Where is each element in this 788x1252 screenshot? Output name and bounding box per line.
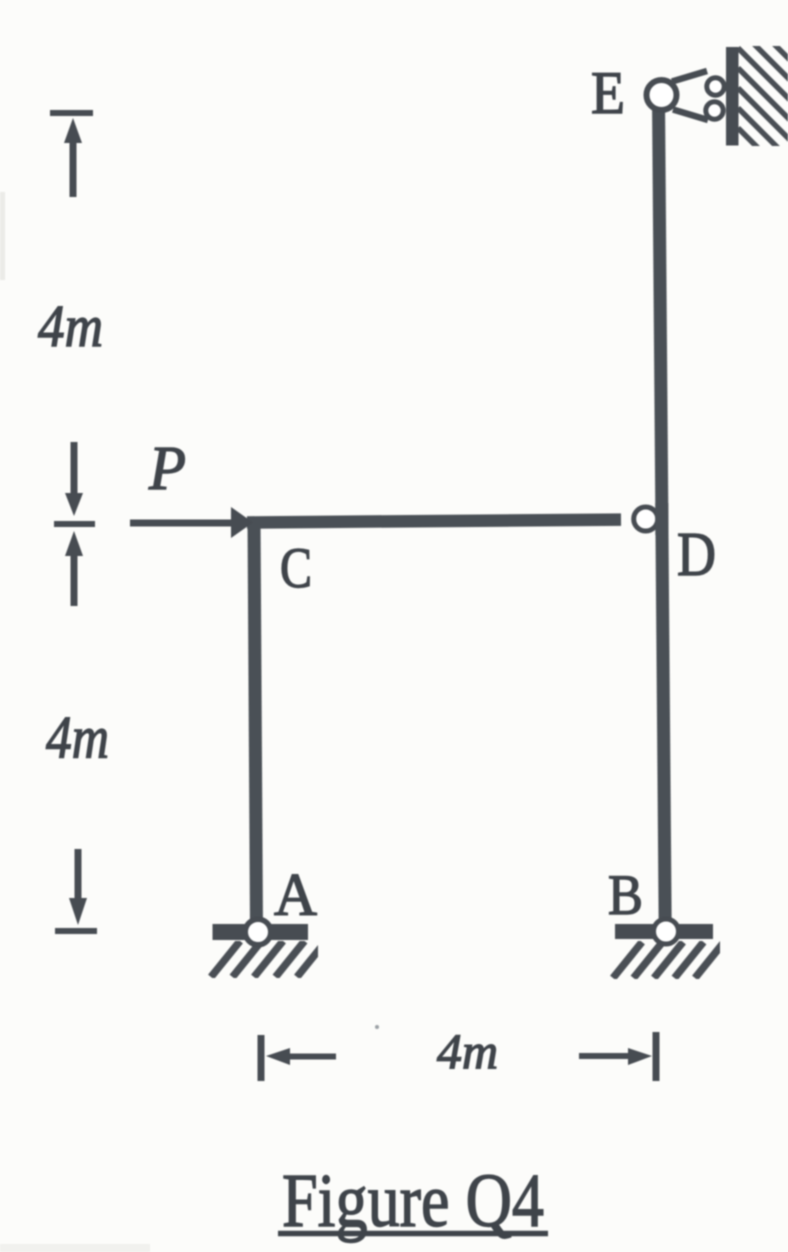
svg-text:B: B	[608, 864, 643, 927]
svg-text:C: C	[280, 537, 312, 600]
svg-text:D: D	[677, 521, 716, 589]
svg-text:4m: 4m	[46, 705, 109, 771]
svg-text:Figure Q4: Figure Q4	[282, 1159, 544, 1243]
svg-text:4m: 4m	[38, 293, 103, 359]
svg-text:E: E	[591, 60, 625, 126]
svg-text:A: A	[274, 862, 317, 928]
svg-text:4m: 4m	[437, 1023, 498, 1079]
svg-text:P: P	[148, 435, 186, 503]
